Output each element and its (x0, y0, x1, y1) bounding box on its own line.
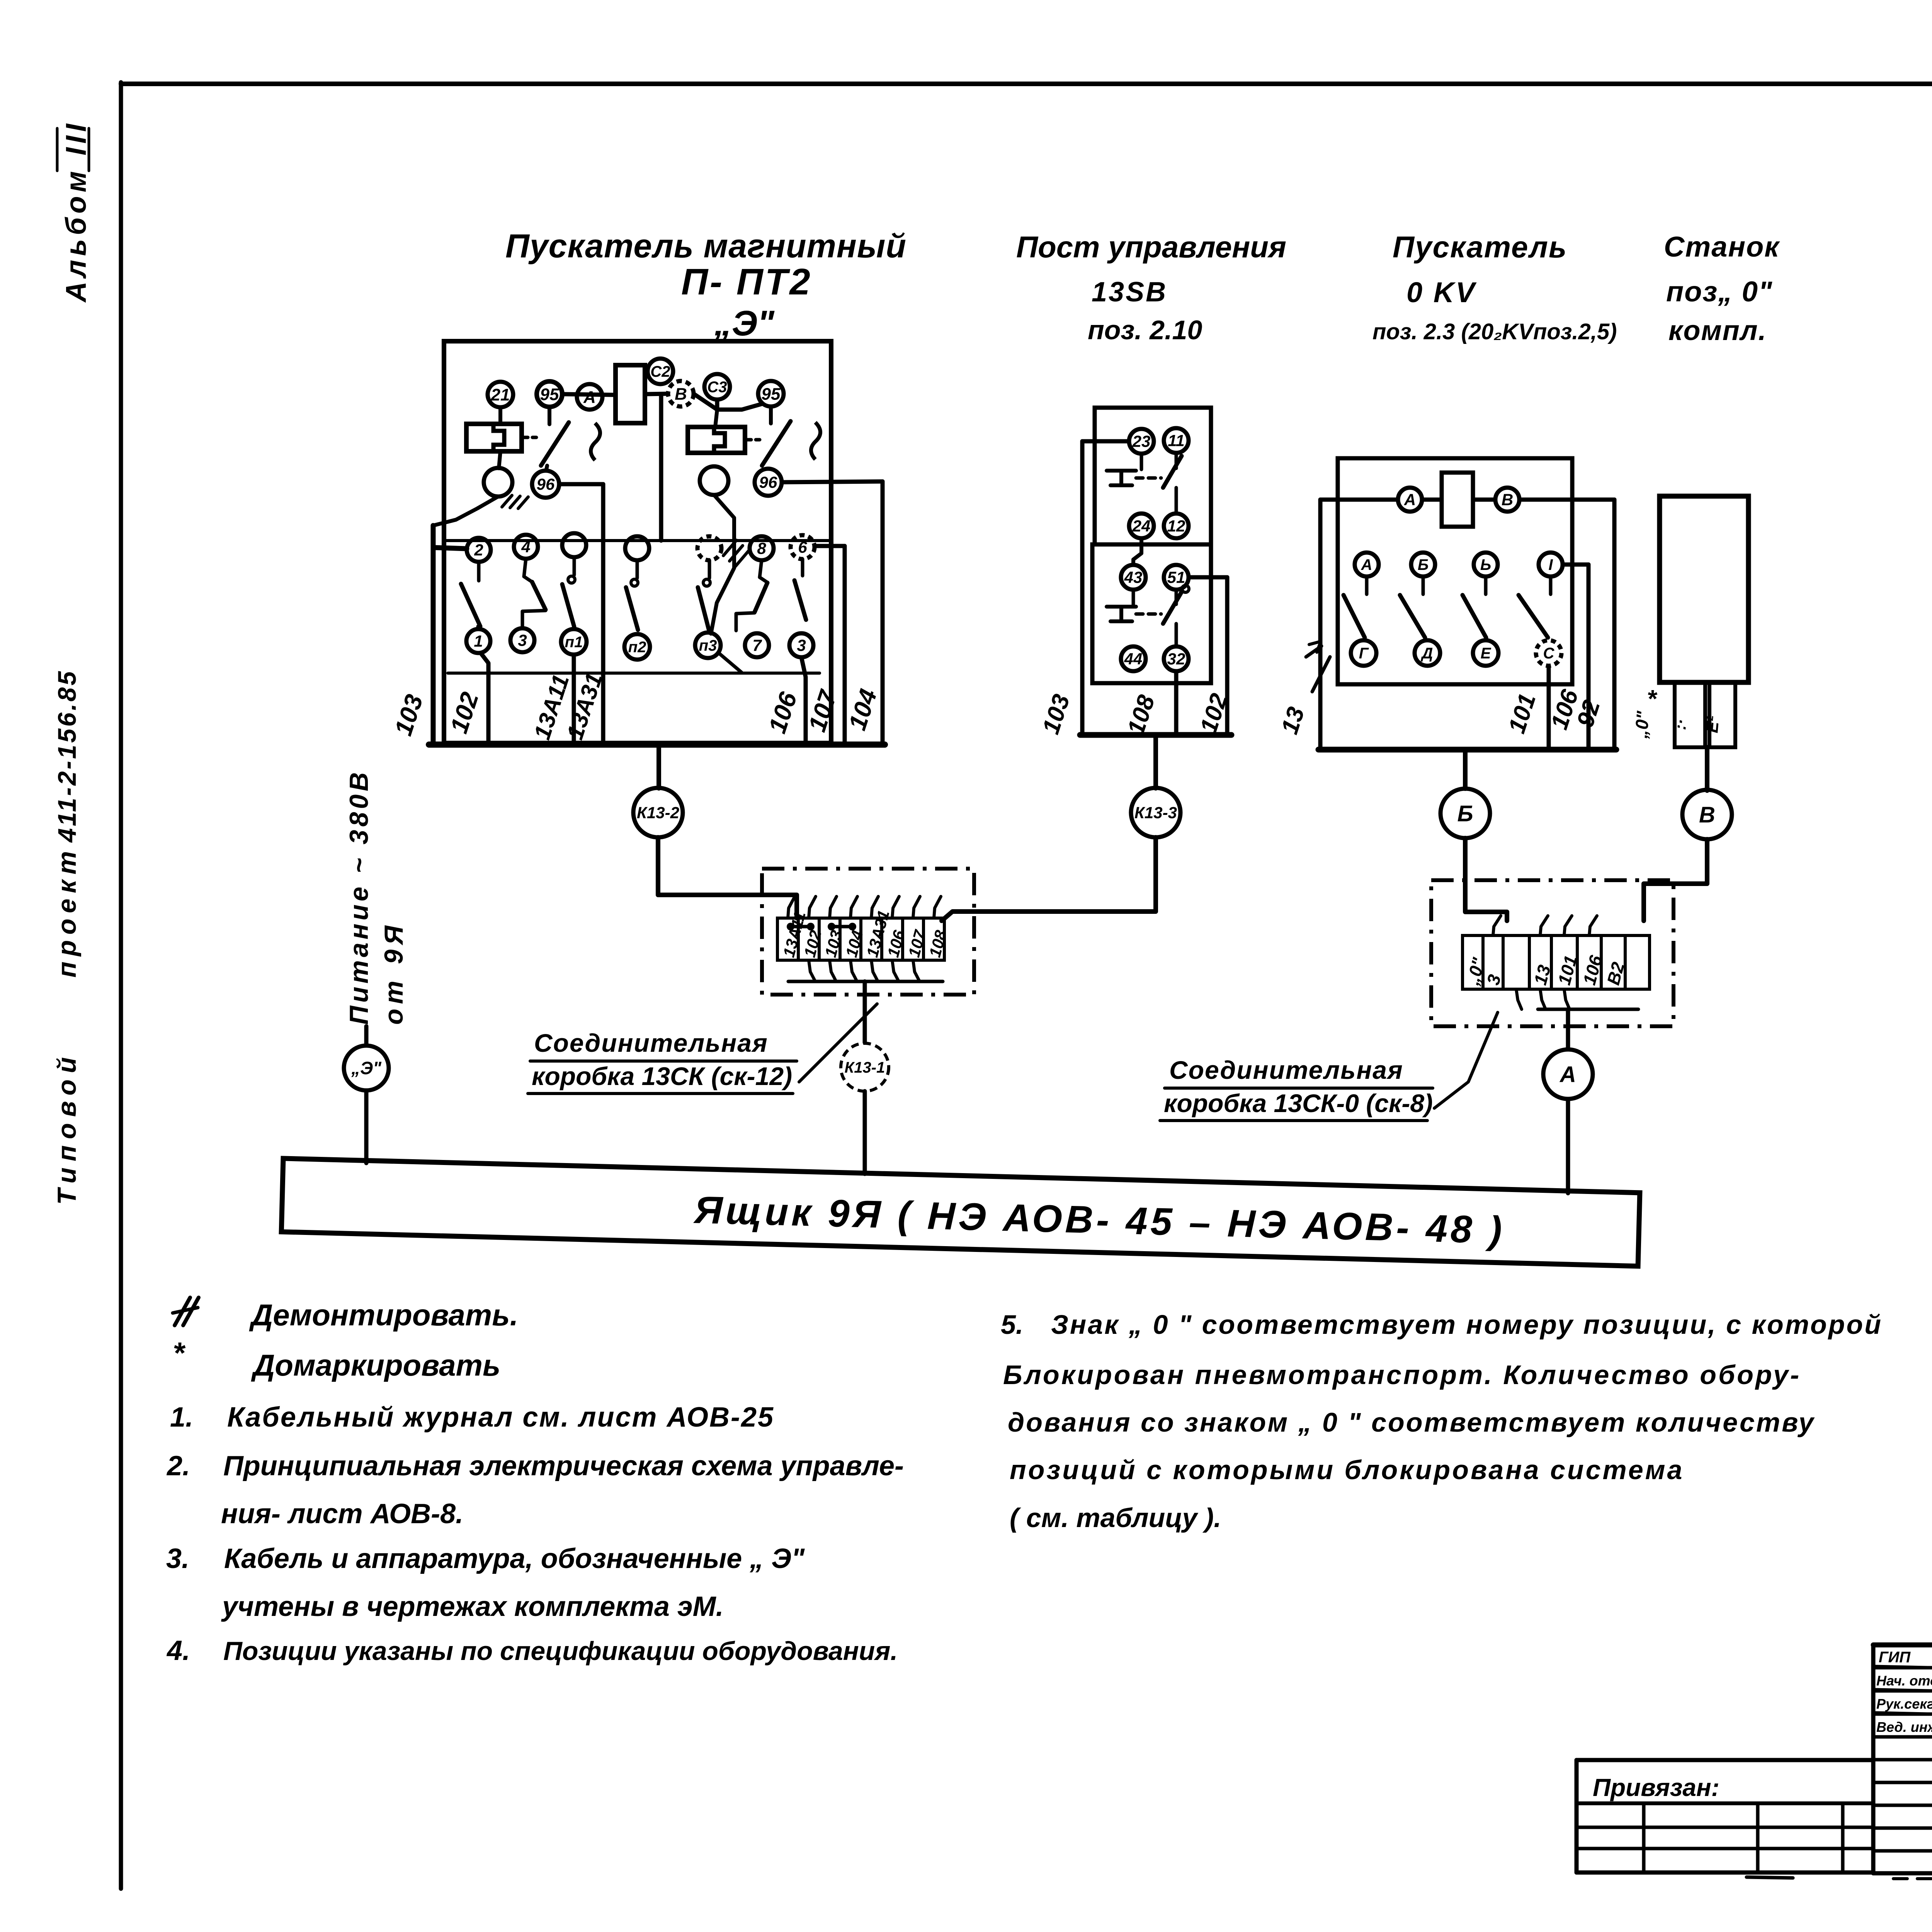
svg-text:I: I (1548, 556, 1553, 573)
wire coil-В (645, 394, 668, 394)
pushbutton head lower (1107, 607, 1161, 621)
svg-text:Д: Д (1421, 645, 1433, 662)
svg-text:Демонтировать.: Демонтировать. (249, 1298, 518, 1332)
svg-text:6: 6 (798, 538, 807, 556)
jumper 2 with dots (828, 923, 856, 930)
svg-text:Е²: Е² (1702, 714, 1723, 733)
svg-text:К13-1: К13-1 (845, 1059, 885, 1076)
terminal 23 (1129, 429, 1154, 454)
label Соединительная коробка 13СК-0 (1160, 1056, 1433, 1121)
svg-text:95: 95 (762, 384, 781, 403)
svg-text:„Э": „Э" (351, 1058, 382, 1078)
svg-text:8: 8 (757, 539, 766, 558)
pushbutton head upper (1107, 471, 1161, 485)
svg-text:411-2-156.85: 411-2-156.85 (53, 669, 81, 843)
svg-text:96: 96 (759, 473, 777, 492)
svg-text:Рук.секг.: Рук.секг. (1876, 1696, 1932, 1712)
svg-text:К13-3: К13-3 (1134, 804, 1177, 822)
svg-text:51: 51 (1167, 568, 1185, 587)
svg-text:12: 12 (1167, 517, 1185, 535)
svg-text:А: А (1559, 1062, 1576, 1087)
svg-text:А: А (583, 388, 596, 406)
terminal 95 right (758, 381, 784, 406)
wire К13-1 to ящик (863, 1091, 867, 1174)
svg-text:позиций с которыми блокиро: позиций с которыми блокирована система (1010, 1455, 1684, 1485)
svg-text:43: 43 (1124, 568, 1143, 587)
svg-text:учтены в чертежах компл: учтены в чертежах комплекта эМ. (221, 1591, 724, 1622)
contact 4-3 zigzag (522, 559, 546, 629)
source circle Э (344, 1046, 389, 1090)
wire В to box2 (1644, 839, 1707, 921)
wire junction-to-103 (433, 497, 498, 526)
junction box 2 terminal strip (1463, 935, 1650, 989)
svg-text:95: 95 (540, 385, 559, 404)
cable circle К13-2 (633, 788, 683, 837)
wire bus to К13-2 (656, 745, 661, 788)
svg-text:Типовой: Типовой (52, 1051, 82, 1205)
svg-text:Кабель и аппаратура, обо: Кабель и аппаратура, обозначенные „ Э" (224, 1543, 805, 1574)
svg-text:Принципиальная электрическая: Принципиальная электрическая схема управ… (223, 1451, 904, 1481)
привязан box (1577, 1760, 1873, 1872)
button contact upper (1141, 453, 1182, 514)
terminal 11 (1164, 428, 1189, 453)
svg-text:1: 1 (474, 632, 483, 650)
wire П3 slant (719, 653, 742, 672)
svg-text:44: 44 (1124, 650, 1143, 668)
thermal relay right (688, 427, 760, 453)
junction circle left (484, 468, 512, 497)
terminal 2 (467, 538, 491, 562)
svg-text:Соединительная: Соединительная (1169, 1056, 1403, 1084)
svg-text:Домаркировать: Домаркировать (251, 1348, 500, 1382)
margin caption Альбом III (57, 120, 92, 303)
svg-text:ГИП: ГИП (1879, 1649, 1911, 1666)
starter bottom bus (429, 742, 885, 748)
thermal relay left (466, 424, 536, 451)
wire К13-2 to box (658, 837, 797, 918)
svg-text:24: 24 (1132, 517, 1151, 535)
svg-text:32: 32 (1167, 650, 1185, 668)
starter П-ПТ2 enclosure box (444, 341, 831, 743)
sig row Нач.отд (1876, 1672, 1932, 1689)
svg-text:*: * (173, 1336, 186, 1370)
cable circle В (1682, 790, 1732, 839)
note 1 (170, 1402, 774, 1433)
cable circle Б (1440, 789, 1490, 838)
terminal 8 (750, 536, 774, 560)
junction box 1 bottom hooks (809, 960, 919, 981)
svg-text:от 9Я: от 9Я (379, 921, 408, 1025)
svg-text:2.: 2. (166, 1451, 190, 1481)
svg-text:Альбом III: Альбом III (60, 120, 92, 303)
terminal С2 (648, 359, 673, 384)
svg-text:Знак „ 0 " соответствует номе: Знак „ 0 " соответствует номеру позиции,… (1051, 1310, 1883, 1340)
svg-text:Питание ~ 380В: Питание ~ 380В (344, 769, 374, 1025)
svg-text:2: 2 (474, 541, 483, 559)
wire 32 down (1174, 672, 1179, 735)
svg-text:Пускатель: Пускатель (1393, 230, 1567, 264)
contact 6-3 (794, 559, 806, 620)
wire В junction down (659, 394, 663, 541)
terminal П1 (561, 629, 587, 655)
wire 96R to 104 (782, 481, 883, 482)
svg-text:21: 21 (491, 385, 510, 404)
svg-text:Блокирован пневмотранспорт.: Блокирован пневмотранспорт. Количество о… (1003, 1360, 1801, 1390)
machine box (1660, 496, 1748, 682)
terminal А (577, 384, 602, 410)
svg-text:Привязан:: Привязан: (1593, 1774, 1719, 1801)
svg-text:П- ПТ2: П- ПТ2 (681, 261, 812, 303)
margin caption Типовой проект 411-2-156.85 (52, 669, 82, 1205)
starter 0KV device box (1338, 458, 1572, 684)
wire Б to box2 (1465, 838, 1507, 921)
terminal С3 (704, 374, 730, 400)
svg-text:В: В (675, 384, 687, 403)
svg-text:Станок: Станок (1664, 231, 1780, 263)
wire 13А31 (559, 484, 603, 745)
wire 103 (433, 526, 467, 745)
right wire 92 (1612, 500, 1617, 750)
wire 104 (881, 481, 885, 745)
svg-text:23: 23 (1132, 432, 1151, 451)
NC contact 95-96 left (541, 407, 600, 469)
wire into 23 (1082, 439, 1129, 444)
label Соединительная коробка 13СК (528, 1029, 797, 1094)
aux block top line (444, 539, 831, 542)
svg-text:Вед. инж.: Вед. инж. (1876, 1719, 1932, 1735)
post bottom bus (1080, 732, 1231, 738)
wire 107 (815, 546, 845, 745)
machine terminal block left (1675, 682, 1705, 747)
stamp bottom line (1873, 1871, 1932, 1876)
junction box 1 top hooks (788, 896, 941, 918)
svg-text:п2: п2 (628, 639, 646, 656)
svg-text:проект: проект (52, 846, 82, 978)
leader line box2 (1434, 1012, 1498, 1108)
svg-text:Е: Е (1481, 645, 1492, 662)
sig row Вед.инж (1876, 1718, 1932, 1735)
note 4 (166, 1635, 898, 1666)
terminal А 0KV (1398, 488, 1422, 512)
button contact lower (1133, 585, 1189, 646)
svg-text:С3: С3 (707, 379, 727, 396)
svg-text:Б: Б (1457, 801, 1473, 826)
svg-text:Ь: Ь (1480, 556, 1491, 573)
junction box 1 terminal labels (779, 908, 950, 959)
stamp top line (1873, 1643, 1932, 1648)
wire 101 (1547, 666, 1551, 750)
svg-text:Пускатель магнитный: Пускатель магнитный (505, 228, 906, 265)
svg-text:( см. таблицу ).: ( см. таблицу ). (1010, 1503, 1221, 1533)
svg-text:3.: 3. (166, 1543, 189, 1574)
demontage hatch left (502, 495, 528, 509)
terminal blank col3 (562, 533, 586, 557)
svg-text:коробка 13СК-0 (ск-8): коробка 13СК-0 (ск-8) (1164, 1089, 1433, 1117)
terminal 7 (745, 633, 769, 657)
junction box 1 dash-dot outline (762, 869, 974, 995)
svg-text:К13-2: К13-2 (637, 804, 679, 822)
wire Э to ящик (364, 1090, 369, 1163)
svg-text:*: * (1647, 685, 1658, 713)
svg-text:Нач. отд.: Нач. отд. (1876, 1673, 1932, 1689)
sig underlines (1875, 1666, 1932, 1736)
cable circle К13-1 (841, 1043, 889, 1091)
svg-text:0 KV: 0 KV (1406, 276, 1477, 308)
terminal 21 (488, 382, 513, 407)
wire bus to К13-3 (1153, 735, 1158, 788)
contact col5 with loop (698, 560, 710, 629)
svg-text:п3: п3 (699, 637, 717, 654)
terminal 3 left (510, 628, 534, 652)
scan artifact dashes bottom (1747, 1877, 1932, 1879)
svg-text:Соединительная: Соединительная (534, 1029, 768, 1057)
aux block bottom line (448, 672, 820, 675)
terminal 43 (1121, 565, 1146, 590)
svg-text:11: 11 (1168, 432, 1185, 450)
svg-text:С2: С2 (650, 363, 670, 380)
junction 2 bottom bar (1538, 1008, 1638, 1011)
cable circle А (1543, 1049, 1593, 1099)
wire 13А11 (572, 655, 576, 745)
contact I-С (1519, 553, 1563, 666)
svg-text:А: А (1404, 491, 1416, 509)
cable circle К13-3 (1131, 788, 1180, 837)
0KV bottom bus (1318, 747, 1616, 753)
svg-text:1.: 1. (170, 1402, 193, 1433)
svg-text:Позиции указаны по специф: Позиции указаны по спецификации оборудов… (223, 1636, 898, 1666)
contactor coil KM1 (616, 365, 645, 423)
contact 2-1 (461, 562, 480, 629)
svg-text:А: А (1361, 556, 1372, 573)
contact А-Г (1344, 553, 1379, 666)
svg-text:поз. 2.3 (20₂KVпоз.2,5): поз. 2.3 (20₂KVпоз.2,5) (1372, 319, 1617, 344)
svg-text:В: В (1502, 491, 1513, 509)
junction box 2 terminal labels (1462, 953, 1628, 988)
leader line box1 (799, 1004, 877, 1082)
contact 8-7 zigzag (736, 560, 767, 631)
contact col4 with loop (626, 560, 638, 630)
sig row ГИП (1879, 1649, 1932, 1666)
terminal 51 (1164, 565, 1189, 590)
svg-text:4: 4 (521, 538, 530, 556)
note 2 (166, 1451, 904, 1481)
demontage hatch mid (723, 540, 748, 566)
contact col3 with loop (562, 557, 575, 627)
svg-text:4.: 4. (166, 1635, 190, 1666)
machine terminal block right (1709, 682, 1735, 747)
junction box 2 bottom hooks (1516, 989, 1570, 1009)
svg-text:5.: 5. (1001, 1310, 1023, 1340)
svg-text:Г: Г (1359, 645, 1369, 662)
terminal 95 left (537, 381, 562, 407)
svg-text:3: 3 (518, 631, 527, 650)
wire 21-coil-circle (499, 407, 500, 468)
terminal 96 right (755, 469, 782, 496)
sig row Рук.сект (1876, 1695, 1932, 1712)
terminal 6 dashed (791, 535, 815, 559)
cabinet box Ящик 9Я (281, 1158, 1640, 1266)
signature table grid (1873, 1645, 1932, 1873)
terminal 4 (514, 535, 538, 559)
svg-text:коробка 13СК (ск-12): коробка 13СК (ск-12) (532, 1062, 792, 1090)
junction circle right (700, 466, 728, 495)
wire junction right down (711, 495, 734, 634)
terminal В dashed (668, 381, 694, 406)
wire 51 right (1189, 577, 1227, 735)
terminal 32 (1164, 646, 1189, 671)
wire box2 to А (1566, 1009, 1570, 1049)
terminal blank col5 dashed (697, 536, 721, 560)
svg-text::·: :· (1671, 718, 1690, 731)
svg-text:Б: Б (1418, 556, 1429, 573)
svg-text:13SB: 13SB (1092, 277, 1167, 308)
terminal blank col4 (625, 536, 649, 560)
wire box1 to К13-1 (863, 981, 867, 1043)
terminal В 0KV (1495, 488, 1519, 512)
post lower box (1092, 544, 1211, 683)
wire 102 (481, 653, 488, 745)
svg-text:7: 7 (752, 636, 762, 655)
note 5 line 1 (1001, 1310, 1883, 1340)
junction box 2 top hooks (1493, 916, 1597, 935)
svg-text:п1: п1 (565, 634, 583, 651)
demontage mark 13 (1306, 641, 1330, 692)
svg-text:„Э": „Э" (714, 304, 775, 343)
wire to Э circle (364, 1026, 369, 1046)
terminal 3 right (789, 633, 813, 657)
svg-text:поз„ 0": поз„ 0" (1666, 276, 1773, 308)
svg-text:компл.: компл. (1668, 315, 1767, 346)
svg-text:С: С (1543, 645, 1555, 662)
terminal 12 (1164, 514, 1189, 538)
top wire 0KV (1320, 498, 1614, 502)
svg-text:Кабельный журнал см. лист А: Кабельный журнал см. лист АОВ-25 (227, 1402, 774, 1433)
junction box 2 dash-dot outline (1431, 880, 1673, 1026)
wire bus to Б (1463, 750, 1468, 789)
wire I right 106 (1563, 565, 1588, 750)
junction 1 bottom bar (788, 980, 943, 983)
svg-text:В: В (1699, 802, 1715, 827)
contact Б-Д (1400, 553, 1440, 666)
wire В-95R (694, 394, 762, 410)
wire 106 (801, 657, 806, 745)
svg-text:3: 3 (797, 636, 806, 655)
wire С3 down-jog (715, 400, 719, 410)
wire С3-coil right (715, 410, 717, 427)
terminal П2 (624, 634, 650, 660)
wire machine to В (1705, 747, 1709, 791)
wire 24-43 jog (1133, 539, 1141, 565)
terminal 24 (1129, 514, 1154, 538)
svg-text:„0": „0" (1631, 710, 1653, 740)
junction box 1 terminal strip (777, 918, 944, 960)
contact В-Е (1463, 553, 1498, 666)
terminal П3 (695, 633, 721, 658)
wire 95L-А-coil (562, 394, 616, 395)
NC contact right dashed (762, 406, 820, 466)
coil 0KV (1442, 473, 1473, 527)
wire А to ящик (1566, 1099, 1570, 1193)
terminal 96 left (532, 471, 559, 498)
terminal 44 (1121, 646, 1146, 671)
svg-text:96: 96 (537, 475, 555, 493)
jumper 1 with dots (787, 923, 815, 930)
svg-text:ния- лист АОВ-8.: ния- лист АОВ-8. (221, 1498, 463, 1529)
svg-text:дования со знаком „ 0 " со: дования со знаком „ 0 " соответствует ко… (1008, 1407, 1815, 1437)
wire 103 post (1080, 441, 1085, 735)
left wire 13 (1318, 500, 1323, 750)
svg-text:поз. 2.10: поз. 2.10 (1088, 315, 1202, 345)
note demontage symbol (173, 1298, 199, 1325)
note 3 (166, 1543, 805, 1574)
post upper box (1095, 408, 1211, 544)
terminal 1 (466, 629, 490, 653)
wire К13-3 to box (942, 837, 1156, 921)
svg-text:Пост управления: Пост управления (1016, 230, 1286, 264)
